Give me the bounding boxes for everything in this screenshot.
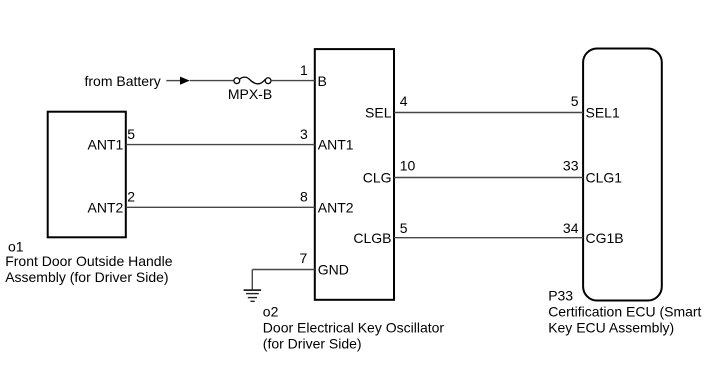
- wire battery segment 1: [166, 80, 180, 82]
- svg-text:1: 1: [300, 62, 308, 78]
- svg-text:Front Door Outside Handle: Front Door Outside Handle: [5, 253, 173, 269]
- wire battery segment 2: [190, 80, 234, 82]
- svg-text:33: 33: [563, 157, 579, 173]
- svg-text:8: 8: [300, 188, 308, 204]
- wire ANT2: [126, 206, 315, 208]
- svg-text:Certification ECU (Smart: Certification ECU (Smart: [548, 304, 701, 320]
- wire SEL: [394, 112, 583, 114]
- svg-text:MPX-B: MPX-B: [228, 86, 272, 102]
- svg-text:ANT2: ANT2: [318, 199, 354, 215]
- svg-text:10: 10: [400, 157, 416, 173]
- svg-text:3: 3: [300, 126, 308, 142]
- box o1 Front Door Outside Handle Assembly: [48, 112, 126, 238]
- wire CLG: [394, 177, 583, 179]
- svg-text:(for Driver Side): (for Driver Side): [263, 336, 362, 352]
- svg-text:SEL: SEL: [365, 104, 392, 120]
- svg-text:2: 2: [127, 188, 135, 204]
- svg-text:o2: o2: [263, 304, 279, 320]
- wire GND horizontal: [252, 269, 314, 271]
- svg-text:SEL1: SEL1: [586, 104, 620, 120]
- svg-text:from Battery: from Battery: [85, 73, 161, 89]
- box P33 Certification ECU: [583, 49, 662, 301]
- wire GND vertical: [251, 270, 253, 291]
- svg-text:7: 7: [300, 250, 308, 266]
- svg-text:CLGB: CLGB: [353, 230, 391, 246]
- svg-text:ANT1: ANT1: [318, 137, 354, 153]
- svg-text:5: 5: [127, 126, 135, 142]
- svg-text:Door Electrical Key Oscillator: Door Electrical Key Oscillator: [263, 320, 445, 336]
- wire ANT1: [126, 144, 315, 146]
- svg-text:CLG1: CLG1: [586, 170, 623, 186]
- svg-text:GND: GND: [318, 262, 349, 278]
- svg-text:ANT2: ANT2: [88, 199, 124, 215]
- svg-text:Key ECU Assembly): Key ECU Assembly): [548, 320, 674, 336]
- svg-text:ANT1: ANT1: [88, 137, 124, 153]
- svg-text:4: 4: [400, 93, 408, 109]
- svg-text:CG1B: CG1B: [586, 230, 624, 246]
- fuse MPX-B left terminal: [234, 78, 240, 84]
- svg-text:34: 34: [563, 220, 579, 236]
- fuse MPX-B right terminal: [265, 78, 271, 84]
- svg-text:B: B: [318, 73, 327, 89]
- svg-text:CLG: CLG: [363, 170, 392, 186]
- svg-text:Assembly (for Driver Side): Assembly (for Driver Side): [5, 269, 168, 285]
- arrow battery: [180, 77, 190, 85]
- wire CLGB: [394, 237, 583, 239]
- wire battery segment 3: [271, 80, 315, 82]
- ground symbol: [244, 290, 262, 301]
- svg-text:5: 5: [400, 220, 408, 236]
- fuse MPX-B element: [240, 77, 266, 84]
- svg-text:P33: P33: [548, 288, 573, 304]
- box o2 Door Electrical Key Oscillator: [315, 49, 394, 300]
- svg-text:5: 5: [571, 93, 579, 109]
